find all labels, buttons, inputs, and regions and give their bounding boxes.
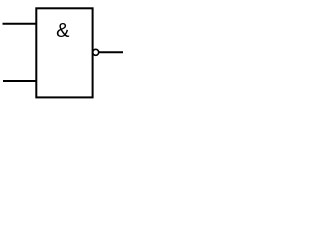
- wire input A: [3, 23, 37, 25]
- wire output Y: [99, 51, 123, 53]
- inversion bubble: [93, 49, 99, 55]
- wire input B: [3, 80, 36, 82]
- gate body U1 (AND/NAND rectangle): [36, 8, 92, 97]
- svg-text:&: &: [56, 20, 70, 42]
